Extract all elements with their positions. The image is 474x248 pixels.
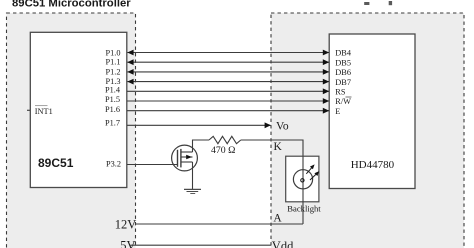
arrowhead at P1.0 xyxy=(127,50,133,56)
arrowhead at DB5 xyxy=(323,59,329,65)
svg-text:K: K xyxy=(274,141,283,153)
svg-text:P1.4: P1.4 xyxy=(105,86,121,95)
title LCD (cut-off remnant marks top right) xyxy=(364,1,392,5)
svg-text:470 Ω: 470 Ω xyxy=(211,145,235,156)
arrowhead at DB6 xyxy=(323,69,329,75)
svg-text:P1.1: P1.1 xyxy=(106,58,121,67)
arrowhead at P1.1 xyxy=(127,59,133,65)
ground xyxy=(184,189,201,193)
arrowhead at R/W xyxy=(323,98,329,104)
IC U1 89C51 (chip body) xyxy=(30,32,127,187)
resistor R1 470 ohm xyxy=(209,136,241,143)
wire P1.4 to RS xyxy=(127,90,329,92)
transistor Q1 (MOSFET in circle) xyxy=(172,145,198,171)
wire P1.5 to R/W xyxy=(127,100,329,102)
block 89C51 Microcontroller (dashed box) xyxy=(7,13,136,248)
svg-text:12V: 12V xyxy=(115,217,137,231)
backlight LED (lamp in box) xyxy=(286,156,320,224)
light arrow 1 xyxy=(306,167,312,174)
wire P1.0 to DB4 xyxy=(128,52,329,54)
light arrow 2 xyxy=(310,174,317,180)
wire resistor to K (backlight cathode) xyxy=(241,140,303,156)
wire 12V rail xyxy=(136,223,303,225)
svg-text:P1.6: P1.6 xyxy=(105,105,120,114)
svg-text:P1.2: P1.2 xyxy=(106,67,121,76)
svg-text:P1.7: P1.7 xyxy=(105,119,120,128)
wire P3.2 gate lead xyxy=(127,164,178,166)
svg-text:E: E xyxy=(335,107,340,116)
svg-text:DB5: DB5 xyxy=(335,58,351,67)
svg-text:Backlight: Backlight xyxy=(287,203,321,213)
wire P1.1 to DB5 xyxy=(128,61,329,63)
svg-text:Vdd: Vdd xyxy=(272,239,294,248)
arrowhead at RS xyxy=(323,88,329,94)
svg-text:DB4: DB4 xyxy=(335,49,352,58)
IC U2 HD44780 (chip body) xyxy=(329,34,415,189)
svg-text:RS: RS xyxy=(335,88,346,97)
lamp filament mark xyxy=(301,179,304,182)
block LCD module (dashed box) xyxy=(271,13,464,248)
wire P1.6 to E xyxy=(127,110,329,112)
wire P1.7 to Vo xyxy=(127,124,271,126)
svg-text:HD44780: HD44780 xyxy=(351,159,395,171)
wire P1.2 to DB6 xyxy=(128,71,329,73)
svg-text:DB7: DB7 xyxy=(335,78,351,87)
arrowhead at P1.2 xyxy=(127,69,133,75)
arrowhead at Vo xyxy=(265,122,271,128)
svg-text:P1.0: P1.0 xyxy=(106,49,121,58)
arrowhead at P1.3 xyxy=(127,79,133,85)
wire drain to resistor xyxy=(193,140,210,152)
overline on INT1 xyxy=(35,105,48,107)
wire P1.3 to DB7 xyxy=(128,81,329,83)
arrowhead at DB4 xyxy=(323,50,329,56)
svg-text:DB6: DB6 xyxy=(335,68,351,77)
arrowhead at E xyxy=(323,108,329,114)
svg-text:R/W: R/W xyxy=(335,97,351,106)
svg-text:Vo: Vo xyxy=(276,120,289,132)
svg-text:P3.2: P3.2 xyxy=(106,160,121,169)
svg-text:A: A xyxy=(273,213,282,225)
arrowhead at DB7 xyxy=(323,79,329,85)
svg-text:89C51 Microcontroller: 89C51 Microcontroller xyxy=(12,0,131,10)
svg-text:P1.5: P1.5 xyxy=(105,95,120,104)
pin stub INT1 xyxy=(27,109,30,111)
wire through backlight xyxy=(302,156,304,224)
svg-text:5V: 5V xyxy=(120,238,135,248)
wire 5V rail xyxy=(131,244,272,246)
svg-text:INT1: INT1 xyxy=(35,107,53,116)
wire source to ground xyxy=(192,162,194,189)
overline on W of R/W xyxy=(346,96,352,98)
svg-text:89C51: 89C51 xyxy=(38,156,74,170)
